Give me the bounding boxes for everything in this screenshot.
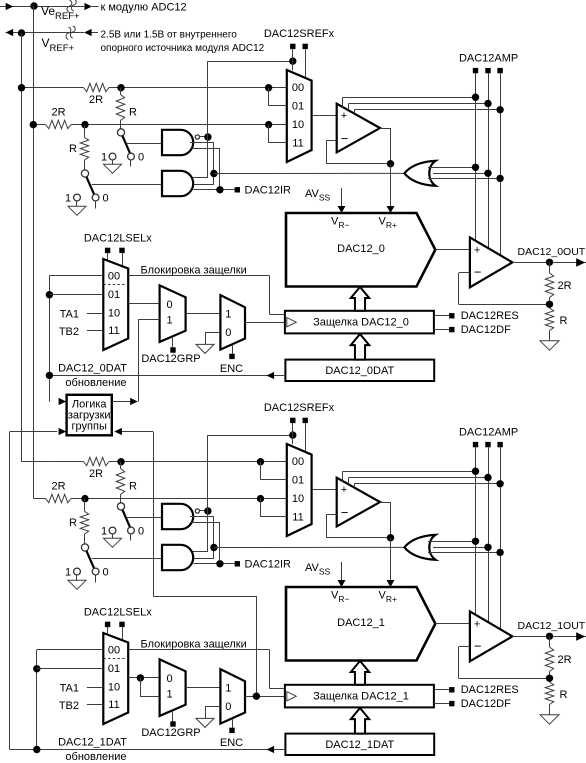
junction G1 out ch0 [204, 133, 211, 140]
label R col2 ch1 [69, 517, 77, 529]
wire VREF+ input [6, 26, 98, 39]
label DAC12_1OUT [518, 620, 586, 632]
junction row2-R ch0 [81, 121, 88, 128]
label S1 1 ch1 [101, 525, 107, 537]
switch S2 throw1 ch1 [74, 568, 81, 580]
mux ENC ch1 [220, 669, 245, 724]
wire DAC12IR ch1 [194, 563, 235, 565]
wire AMP line1 ch1 [343, 447, 476, 615]
junction SREF pin1 ch0 [289, 57, 296, 64]
pin DAC12DF ch1 [434, 701, 455, 706]
label 2R out ch0 [558, 280, 572, 292]
arrow into VR- ch1 [338, 580, 346, 587]
junction AMP2 ch1 [484, 474, 491, 481]
box DAC12_1DAT [285, 734, 434, 755]
switch S1 throw0 ch1 [128, 527, 135, 540]
label DAC12LSELx ch1 [84, 606, 152, 618]
pin DAC12IR ch1 [235, 561, 240, 566]
wire TA1 ch1 [87, 687, 103, 689]
wire TB2 ch1 [87, 704, 103, 706]
svg-text:0: 0 [138, 525, 144, 537]
label DAC12AMP ch0 [459, 53, 518, 65]
switch S1 lever ch1 [122, 510, 130, 528]
arrow group-logic out1 [130, 398, 138, 405]
AND gate G1 ch0 [162, 130, 193, 155]
arrow into group-logic in1 [59, 398, 67, 405]
wire lsel00 bus ch0 [49, 276, 103, 402]
wire grp out ch0 [186, 313, 221, 315]
label DAC12GRP ch1 [141, 727, 200, 739]
label DAC12_1DAT box [325, 739, 394, 751]
ground out ch0 [540, 341, 559, 350]
label S1 0 ch1 [138, 525, 144, 537]
switch S1 pole ch1 [117, 503, 124, 510]
resistor 2R out ch0 [545, 262, 553, 304]
wire buffer feedback ch0 [327, 140, 391, 163]
G1 output bubble ch1 [195, 509, 199, 513]
wire DAC12_0DAT update [49, 375, 285, 377]
G1 output bubble ch0 [195, 135, 199, 139]
label sref 10 ch0 [292, 119, 304, 131]
svg-text:DAC12IR: DAC12IR [245, 559, 292, 571]
svg-text:1: 1 [166, 314, 172, 326]
svg-text:Блокировка защелки: Блокировка защелки [141, 639, 247, 651]
svg-text:DAC12RES: DAC12RES [461, 684, 519, 696]
wire OR in2 ch0 [433, 173, 488, 175]
AND gate G1 ch1 [162, 504, 193, 529]
svg-text:00: 00 [292, 456, 304, 468]
svg-text:DAC12LSELx: DAC12LSELx [84, 232, 152, 244]
wire blok to latch ch1 [128, 650, 285, 689]
pin DAC12DF ch0 [434, 327, 455, 332]
svg-text:−: − [341, 505, 349, 520]
ground S2 ch0 [68, 206, 86, 215]
svg-text:1: 1 [225, 308, 231, 320]
wire group-logic in2 [10, 432, 58, 750]
latch clock triangle ch0 [287, 318, 296, 327]
wire DAC12_0OUT [512, 262, 586, 264]
svg-text:Блокировка защелки: Блокировка защелки [141, 265, 247, 277]
label R col2 ch0 [69, 143, 77, 155]
junction node VREF+ [18, 29, 25, 36]
ground S1 ch0 [104, 164, 122, 173]
label DAC12_1DAT wire [58, 736, 127, 748]
svg-text:0: 0 [138, 151, 144, 163]
switch S2 throw0 ch1 [92, 568, 99, 582]
ground S1 ch1 [104, 538, 122, 547]
label lsel 00 ch0 [108, 271, 120, 283]
label DAC12IR ch1 [245, 559, 292, 571]
label 2R row2 ch1 [51, 481, 65, 493]
wire AMP line1 ch0 [343, 73, 476, 241]
label enc 1 ch0 [225, 308, 231, 320]
wire DAC12_1DAT update [10, 749, 286, 751]
label DAC12SREFx ch0 [264, 28, 335, 40]
wire OR in3 ch0 [428, 178, 500, 180]
svg-text:DAC12_1: DAC12_1 [337, 617, 385, 629]
svg-text:DAC12GRP: DAC12GRP [141, 727, 200, 739]
switch S1 throw1 ch0 [109, 153, 116, 164]
label 2R row2 ch0 [51, 107, 65, 119]
wire grp1 from group-logic ch0 [138, 320, 159, 402]
svg-text:R: R [129, 107, 137, 119]
label 2.5B internal reference note [101, 30, 265, 54]
latch clock triangle ch1 [287, 692, 296, 701]
wire row1 VREF ch1 [48, 461, 287, 463]
junction update-bus ch0 [46, 372, 53, 379]
wire lsel out to grp ch1 [128, 677, 159, 679]
resistor 2R row1 ch0 [84, 83, 110, 91]
svg-text:2R: 2R [558, 654, 572, 666]
svg-text:DAC12RES: DAC12RES [461, 310, 519, 322]
svg-text:ENC: ENC [220, 363, 243, 375]
pin ENC ch1 [229, 719, 234, 733]
svg-text:DAC12LSELx: DAC12LSELx [84, 606, 152, 618]
svg-text:−: − [474, 265, 482, 280]
label DAC12_0 [337, 243, 385, 255]
svg-text:00: 00 [292, 82, 304, 94]
label DAC12DF ch0 [461, 324, 511, 336]
label Защелка DAC12_0 [313, 316, 409, 328]
or-gate amp-enable ch1 [404, 535, 435, 560]
label sref 11 ch1 [292, 511, 303, 523]
pin DAC12LSELx-2 ch0 [119, 248, 124, 267]
arrow update ch0 [267, 372, 275, 379]
label обновление ch1 [65, 751, 126, 763]
junction OR-wire node ch1 [210, 544, 217, 551]
svg-text:1: 1 [65, 566, 71, 578]
label S1 0 ch0 [138, 151, 144, 163]
wire enc out ch1 [245, 696, 285, 698]
op-amp buffer ch1 [337, 478, 380, 527]
svg-text:11: 11 [108, 699, 119, 711]
junction row1-R ch1 [117, 458, 124, 465]
wire group-logic out1 [112, 401, 131, 403]
wire lsel out to grp ch0 [128, 303, 159, 305]
wire OR output ch0 [214, 172, 405, 174]
label sref 00 ch1 [292, 456, 304, 468]
svg-text:00: 00 [108, 271, 120, 283]
svg-text:DAC12_0: DAC12_0 [337, 243, 385, 255]
wire sref mux out ch1 [312, 489, 337, 491]
pin DAC12AMP-1 ch1 [473, 442, 478, 447]
mux DAC12GRP ch0 [160, 285, 186, 342]
junction fb ch1 [546, 675, 553, 682]
op-amp output ch1 [470, 611, 513, 661]
lsel dashed separator ch1 [103, 658, 128, 660]
label VR+ ch0 [379, 216, 397, 231]
wire S1 to AND1 ch0 [127, 143, 162, 145]
svg-text:обновление: обновление [65, 377, 126, 389]
label lsel 11 ch1 [108, 699, 119, 711]
svg-text:DAC12_1DAT: DAC12_1DAT [58, 736, 127, 748]
junction OR2 ch1 [484, 544, 491, 551]
wire AVSS ch1 [341, 562, 343, 581]
resistor R col1 ch0 [116, 88, 124, 129]
pin DAC12AMP-3 ch0 [497, 68, 502, 73]
label Блокировка защелки ch1 [141, 639, 247, 651]
junction DAC12IR ch1 [216, 560, 223, 567]
wire enc0 gnd ch1 [205, 706, 220, 718]
junction sref 10-11 ch0 [265, 121, 272, 128]
svg-text:R: R [69, 517, 77, 529]
mux DAC12SREFx ch0 [287, 70, 312, 162]
label sref 00 ch0 [292, 82, 304, 94]
svg-text:R: R [69, 143, 77, 155]
resistor 2R row2 ch0 [46, 120, 71, 128]
svg-text:DAC12IR: DAC12IR [245, 185, 292, 197]
junction OR3 ch0 [496, 175, 503, 182]
svg-text:TA1: TA1 [60, 308, 79, 320]
pin DAC12SREFx-2 ch0 [303, 44, 308, 78]
label lsel 00 ch1 [108, 645, 120, 657]
wire group-logic out2 [122, 432, 257, 697]
svg-text:DAC12AMP: DAC12AMP [459, 427, 518, 439]
svg-text:2R: 2R [558, 280, 572, 292]
switch S1 throw0 ch0 [128, 153, 135, 166]
op-amp output ch0 [470, 237, 513, 287]
svg-text:DAC12_0DAT: DAC12_0DAT [325, 365, 394, 377]
resistor R out ch0 [545, 308, 553, 341]
svg-text:2R: 2R [51, 107, 65, 119]
mux DAC12SREFx ch1 [287, 444, 312, 536]
arrow into group-logic in2 [59, 428, 67, 435]
mux DAC12GRP ch1 [160, 659, 186, 716]
pin DAC12AMP-2 ch1 [485, 442, 490, 447]
junction row2-bus ch0 [30, 121, 37, 128]
switch S1 lever ch0 [122, 136, 130, 154]
junction AMP3 ch1 [496, 480, 503, 487]
wire VR+ drop ch1 [390, 538, 392, 581]
label Защелка DAC12_1 [313, 690, 409, 702]
svg-text:10: 10 [292, 493, 304, 505]
label VREF+ [42, 36, 75, 54]
arrow into VR+ ch1 [387, 580, 395, 587]
pin DAC12LSELx-2 ch1 [119, 622, 124, 641]
svg-text:11: 11 [292, 137, 303, 149]
switch S2 lever ch1 [86, 551, 94, 568]
label enc 0 ch1 [225, 701, 231, 713]
label 2R row1 ch1 [89, 468, 103, 480]
pin DAC12SREFx-2 ch1 [303, 418, 308, 452]
pin DAC12RES ch0 [434, 313, 455, 318]
op-amp buffer ch0 [337, 104, 380, 153]
label TB2 ch1 [59, 700, 79, 712]
wire sref 01 jog ch1 [261, 462, 287, 480]
junction row1-bus ch0 [18, 84, 25, 91]
junction OR3 ch1 [496, 549, 503, 556]
svg-text:2R: 2R [89, 94, 103, 106]
svg-text:1: 1 [225, 682, 231, 694]
svg-text:R: R [560, 689, 568, 701]
wire lsel01 ch1 [37, 668, 104, 670]
svg-text:+: + [341, 110, 347, 122]
arrow latch to DAC12_0 [351, 287, 369, 311]
label TA1 ch1 [60, 682, 79, 694]
label VR+ ch1 [379, 590, 397, 605]
svg-text:1: 1 [101, 151, 107, 163]
svg-text:0: 0 [102, 566, 108, 578]
junction grp01 tie ch1 [137, 674, 144, 681]
ground enc0 ch0 [196, 344, 214, 353]
wire buffer feedback ch1 [327, 514, 391, 537]
wire sref mux out ch0 [312, 115, 337, 117]
arrow update ch1 [267, 746, 275, 753]
arrow DAC12_0OUT [576, 258, 585, 266]
label DAC12LSELx ch0 [84, 232, 152, 244]
wire AMP line3 ch1 [354, 447, 500, 629]
arrow into VR- ch0 [338, 206, 346, 213]
svg-text:0: 0 [225, 701, 231, 713]
wire dac out ch0 [435, 249, 470, 251]
mux DAC12LSELx ch1 [103, 633, 128, 724]
label VR- ch1 [331, 590, 349, 605]
label R out ch1 [560, 689, 568, 701]
wire lsel01 ch0 [49, 294, 103, 296]
svg-text:01: 01 [108, 289, 120, 301]
svg-text:TA1: TA1 [60, 682, 79, 694]
label ENC ch1 [220, 737, 243, 749]
latch Защелка DAC12_0 [285, 311, 434, 334]
AND gate G2 ch1 [162, 545, 193, 570]
wire AMP line3 ch0 [354, 73, 500, 255]
pin DAC12AMP-1 ch0 [473, 68, 478, 73]
wire lsel00 bus ch1 [37, 650, 104, 750]
junction sref 10-11 ch1 [257, 495, 264, 502]
svg-text:R: R [129, 481, 137, 493]
label DAC12RES ch0 [461, 310, 519, 322]
wire G1-out vertical ch1 [192, 435, 208, 552]
pin DAC12AMP-3 ch1 [497, 442, 502, 447]
wire row2 VeREF ch0 [33, 124, 287, 126]
wire grp out ch1 [186, 687, 221, 689]
svg-text:DAC12DF: DAC12DF [461, 698, 511, 710]
switch S2 throw0 ch0 [92, 194, 99, 208]
label grp 0 ch0 [166, 299, 172, 311]
svg-text:DAC12_0DAT: DAC12_0DAT [58, 362, 127, 374]
junction AMP3 ch0 [496, 106, 503, 113]
wire OR output ch1 [214, 546, 405, 548]
ground S2 ch1 [68, 580, 86, 589]
junction lsel01 ch1 [33, 665, 40, 672]
svg-text:1: 1 [101, 525, 107, 537]
wire buffer output ch0 [380, 128, 391, 164]
wire VeREF+ to ADC12 module [0, 0, 99, 12]
mux DAC12LSELx ch0 [103, 259, 128, 350]
wire S1 to AND1 ch1 [127, 517, 162, 519]
label R col1 ch0 [129, 107, 137, 119]
svg-text:+: + [474, 244, 480, 256]
junction sref 00-01 ch0 [265, 84, 272, 91]
label DAC12DF ch1 [461, 698, 511, 710]
svg-text:2R: 2R [89, 468, 103, 480]
switch S2 pole ch1 [81, 544, 88, 551]
junction row1-R ch0 [117, 84, 124, 91]
label S2 1 ch1 [65, 566, 71, 578]
label DAC12_1 [337, 617, 385, 629]
svg-text:11: 11 [292, 511, 303, 523]
svg-text:TB2: TB2 [59, 326, 79, 338]
pin DAC12RES ch1 [434, 687, 455, 692]
switch S2 throw1 ch0 [74, 194, 81, 206]
wire G1 route B ch1 [190, 522, 220, 564]
label lsel 11 ch0 [108, 325, 119, 337]
label S2 0 ch1 [102, 566, 108, 578]
resistor R col2 ch0 [80, 125, 88, 170]
wire sref 01 jog ch0 [269, 88, 287, 106]
pin DAC12LSELx-1 ch0 [105, 248, 110, 262]
svg-text:DAC12_1DAT: DAC12_1DAT [325, 739, 394, 751]
wire enc0 gnd ch0 [205, 332, 220, 344]
svg-text:+: + [341, 484, 347, 496]
box DAC12_0DAT [285, 360, 434, 381]
label Логика загрузки группы [68, 398, 111, 432]
wire G1-out vertical ch0 [192, 61, 208, 178]
wire row1 VREF ch0 [22, 87, 288, 89]
block DAC12_0 [286, 213, 435, 287]
wire G1 route B ch0 [190, 148, 220, 190]
label lsel 10 ch0 [108, 307, 120, 319]
junction OR2 ch0 [484, 170, 491, 177]
arrow DAC12_1OUT [576, 632, 585, 640]
arrow DAT to latch ch0 [351, 334, 369, 360]
junction lsel01 ch0 [46, 291, 53, 298]
wire OR in1 ch0 [428, 167, 476, 169]
svg-text:группы: группы [72, 420, 107, 432]
junction buffer out ch1 [387, 534, 394, 541]
junction out ch0 [546, 259, 553, 266]
wire buffer output ch1 [380, 502, 391, 538]
label S2 1 ch0 [65, 192, 71, 204]
ground enc0 ch1 [196, 718, 214, 727]
junction G1 out ch1 [204, 507, 211, 514]
svg-text:−: − [474, 639, 482, 654]
pin ENC ch0 [229, 345, 234, 359]
arrow latch to DAC12_1 [351, 661, 369, 685]
label ENC ch0 [220, 363, 243, 375]
label AVSS ch0 [305, 188, 331, 203]
label sref 01 ch1 [292, 474, 304, 486]
wire OR in3 ch1 [428, 552, 500, 554]
label DAC12_0DAT box [325, 365, 394, 377]
svg-text:0: 0 [166, 673, 172, 685]
junction SREF pin1 ch1 [289, 431, 296, 438]
svg-text:1: 1 [65, 192, 71, 204]
junction row2-R ch1 [81, 495, 88, 502]
resistor 2R out ch1 [545, 636, 553, 678]
label R col1 ch1 [129, 481, 137, 493]
pin DAC12SREFx-1 ch0 [290, 44, 295, 71]
svg-text:0: 0 [225, 327, 231, 339]
label 2R out ch1 [558, 654, 572, 666]
wire DAC12_1OUT [512, 636, 586, 638]
svg-text:10: 10 [292, 119, 304, 131]
svg-text:DAC12SREFx: DAC12SREFx [264, 402, 335, 414]
svg-text:+: + [474, 618, 480, 630]
label DAC12AMP ch1 [459, 427, 518, 439]
label AVSS ch1 [305, 562, 331, 577]
label enc 0 ch0 [225, 327, 231, 339]
svg-text:01: 01 [292, 474, 304, 486]
svg-text:опорного источника модуля ADC1: опорного источника модуля ADC12 [101, 43, 265, 54]
resistor 2R row1 ch1 [84, 457, 110, 465]
label DAC12GRP ch0 [141, 353, 200, 365]
svg-text:DAC12GRP: DAC12GRP [141, 353, 200, 365]
wire VeREF+ vertical bus [33, 6, 35, 498]
label DAC12IR ch0 [245, 185, 292, 197]
wire out-amp feedback ch1 [459, 647, 550, 679]
junction AMP1 ch1 [472, 468, 479, 475]
